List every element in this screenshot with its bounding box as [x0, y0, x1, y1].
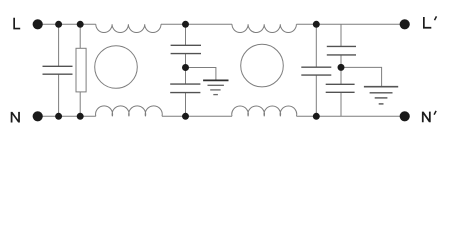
terminal L [33, 19, 43, 29]
wire capacitor CX1 bottom lead [58, 74, 60, 116]
wire capacitor CX2 bottom lead [315, 75, 317, 116]
wire bottom rail middle segment [162, 115, 232, 117]
ground 2 [364, 87, 398, 104]
wire CY4 bottom lead [340, 92, 342, 116]
prime mark for L' [435, 16, 437, 20]
junction bottom CY2 [182, 113, 189, 120]
junction bottom R1 [77, 113, 84, 120]
wire CY3 top lead [340, 24, 342, 46]
junction top CY1 [182, 21, 189, 28]
capacitor CX2 plates [301, 66, 331, 68]
wire CY1 top lead [185, 24, 187, 45]
capacitor CY2 plates [170, 83, 200, 85]
junction CY3-CY4 midpoint [338, 64, 345, 71]
wire top rail right segment [297, 23, 405, 25]
junction bottom CX2 [313, 113, 320, 120]
capacitor CY1 plates [171, 44, 201, 46]
inductor L2a top winding [232, 24, 296, 32]
wire CY1-CY2 middle link [185, 54, 187, 85]
terminal L' [400, 19, 410, 29]
node label L' [423, 17, 431, 29]
wire capacitor CX2 top lead [315, 24, 317, 67]
terminal N' [400, 111, 410, 121]
node label L [13, 18, 20, 30]
junction CY1-CY2 midpoint [182, 64, 189, 71]
wire bottom rail right segment [297, 115, 405, 117]
wire CY3-CY4 middle link [340, 55, 342, 84]
wire ground 1 horizontal [186, 68, 216, 81]
junction bottom CX1 [55, 113, 62, 120]
wire bottom rail N-segment [38, 115, 96, 117]
wire ground 2 horizontal [341, 67, 382, 86]
inductor L2b bottom winding [232, 106, 297, 116]
prime mark for N' [434, 111, 436, 115]
wire top rail middle segment [161, 23, 232, 25]
capacitor CY4 plates [326, 83, 355, 85]
node label N' [422, 112, 431, 123]
junction top CX1 [55, 21, 62, 28]
capacitor CY3 plates [327, 45, 356, 47]
wire top rail L-segment [38, 23, 96, 25]
wire CY2 bottom lead [185, 93, 187, 117]
terminal N [33, 111, 43, 121]
inductor L1b bottom winding [96, 106, 163, 116]
node label N [11, 112, 20, 123]
capacitor CX1 plates [43, 65, 73, 67]
choke core circle 1 [95, 46, 138, 89]
junction top CX2 [313, 21, 320, 28]
wire resistor R1 bottom lead [79, 92, 81, 116]
choke core circle 2 [241, 44, 284, 87]
resistor R1 body [76, 48, 86, 92]
ground 1 [203, 80, 228, 94]
junction top R1 [77, 21, 84, 28]
inductor L1a top winding [96, 24, 161, 32]
wire resistor R1 top lead [79, 24, 81, 48]
wire capacitor CX1 top lead [58, 24, 60, 66]
